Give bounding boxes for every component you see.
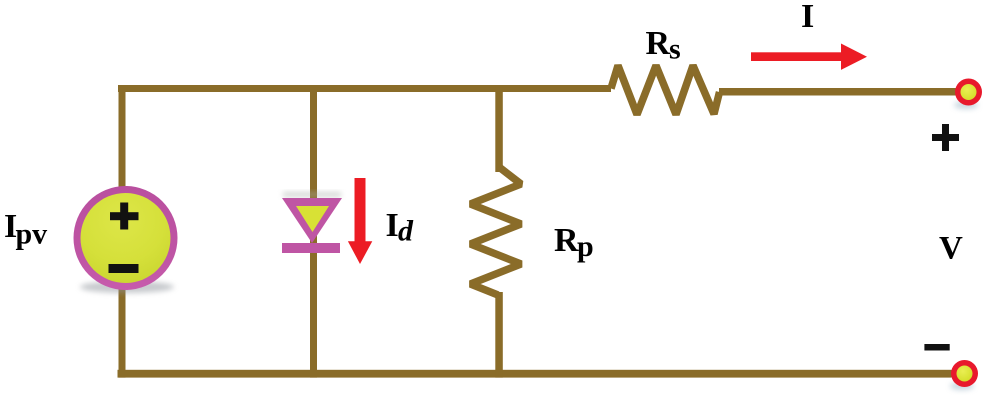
resistor Rs [611,66,720,115]
svg-text:pv: pv [16,218,48,251]
svg-text:V: V [939,231,963,267]
diode D1 [282,192,342,253]
arrow I (red, right) [751,44,867,70]
svg-text:R: R [646,25,671,62]
svg-text:R: R [554,222,579,259]
wire Rp branch bottom vertical [495,292,503,378]
terminal top-right [954,101,978,109]
terminal bottom-right [950,382,974,390]
resistor Rp [471,167,522,295]
label minus (output) [924,344,949,351]
svg-text:I: I [801,0,814,35]
wire Rp branch top vertical [495,85,503,172]
wire bottom horizontal [118,370,952,378]
wire left vertical [119,85,126,378]
wire diode branch vertical [310,85,317,378]
svg-text:p: p [577,230,594,263]
wire top-right horizontal [719,88,957,96]
current source minus sign [109,264,139,273]
current source Ipv circle [80,281,174,293]
current source plus sign [110,212,139,220]
label plus (output) [932,134,959,141]
arrow Id (red, down) [348,178,372,264]
svg-text:d: d [398,215,414,248]
wire top-left horizontal [118,85,611,92]
svg-text:s: s [669,33,681,66]
svg-text:I: I [386,207,399,244]
